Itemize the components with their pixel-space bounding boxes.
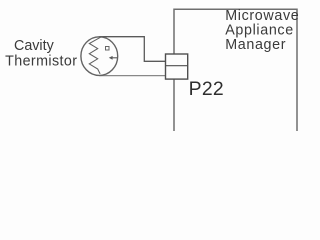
thermistor resistive element zigzag bbox=[89, 37, 100, 74]
thermistor arrow (points left at element) bbox=[109, 56, 118, 60]
svg-text:Manager: Manager bbox=[225, 37, 286, 53]
connector P22 body bbox=[166, 54, 188, 79]
label: Cavity Thermistor bbox=[5, 38, 77, 70]
svg-text:P22: P22 bbox=[189, 78, 224, 100]
connector P22 pin divider bbox=[166, 65, 188, 67]
Microwave Appliance Manager box outline bbox=[174, 9, 297, 131]
wire: thermistor top lead to connector P22 pin 1 bbox=[99, 37, 165, 62]
label: Microwave Appliance Manager bbox=[225, 8, 299, 53]
thermistor temperature marker square bbox=[106, 47, 110, 51]
svg-text:Cavity: Cavity bbox=[14, 38, 55, 54]
thermistor body circle (Cavity Thermistor) bbox=[81, 37, 118, 76]
svg-text:Thermistor: Thermistor bbox=[5, 54, 77, 70]
wire: thermistor bottom lead to connector P22 pin 2 bbox=[99, 75, 166, 77]
